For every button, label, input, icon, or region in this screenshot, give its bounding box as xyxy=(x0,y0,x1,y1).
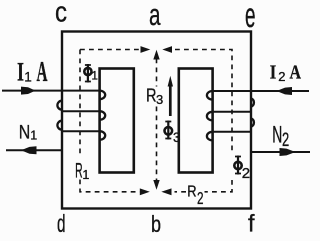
core outer boundary (c-e-f-d rectangle) xyxy=(62,32,251,209)
left core window xyxy=(100,69,134,173)
flux PHI3 direction arrow (up) in center leg xyxy=(169,85,172,116)
svg-text:1: 1 xyxy=(92,70,98,82)
arrow N2 (pointing right) xyxy=(280,148,296,156)
coil N2 outer-side loops (on outer edge) xyxy=(251,98,254,126)
center line top arrow (pointing up) xyxy=(153,50,159,60)
svg-text:1: 1 xyxy=(30,129,37,143)
coil N1 inner-side loops (on window edge) xyxy=(100,91,106,140)
svg-text:A: A xyxy=(37,57,48,88)
flux path R2 loop: top + right dashed segment (down to Phi2 label) xyxy=(175,50,232,154)
svg-text:3: 3 xyxy=(156,92,163,107)
flux path R2 loop: right-bottom dashed corner segment xyxy=(205,180,233,192)
svg-text:R: R xyxy=(146,85,157,106)
svg-text:N: N xyxy=(272,121,282,148)
wire I1 lead (left top) xyxy=(2,90,100,92)
arrow N1 (pointing left) xyxy=(21,146,37,154)
wire I2 lead (right top) xyxy=(213,90,310,92)
center line bottom arrow (pointing down) xyxy=(153,180,159,190)
svg-text:A: A xyxy=(290,62,302,84)
svg-text:2: 2 xyxy=(242,165,250,182)
svg-text:2: 2 xyxy=(278,69,285,84)
flux symbol PHI2 xyxy=(234,156,241,175)
wire N1 lead (left bottom) xyxy=(6,149,63,151)
flux path R1 loop: top dashed segment xyxy=(80,49,141,51)
arrow I1 (pointing right) xyxy=(21,87,36,95)
flux path R1 loop: left dashed segment (upper, above R1 label) xyxy=(79,50,81,158)
flux path R1 loop: bottom arrow (pointing right) xyxy=(140,188,150,195)
svg-text:d: d xyxy=(57,210,66,238)
svg-text:a: a xyxy=(149,0,161,32)
svg-text:I: I xyxy=(17,58,24,87)
svg-text:2: 2 xyxy=(197,188,204,208)
svg-text:b: b xyxy=(151,211,161,237)
svg-text:R: R xyxy=(187,184,196,201)
flux symbol PHI1 xyxy=(84,64,91,83)
wire N2 lead (right bottom) xyxy=(251,151,310,153)
svg-text:N: N xyxy=(19,123,31,144)
svg-text:c: c xyxy=(55,0,67,29)
coil N2 inner-side loops (on window edge) xyxy=(207,91,213,140)
arrow I2 (pointing left) xyxy=(277,87,293,95)
coil N1 outer-side loops (on outer edge) xyxy=(57,101,62,130)
svg-text:f: f xyxy=(248,211,255,238)
svg-text:3: 3 xyxy=(173,130,181,145)
flux path R2 loop: top arrow (pointing left) xyxy=(162,46,172,53)
svg-text:e: e xyxy=(245,0,256,35)
center leg flux dashed line (node a to node b) xyxy=(156,59,158,181)
flux path R2 loop: bottom arrow (pointing left) xyxy=(161,188,171,195)
svg-text:1: 1 xyxy=(24,69,32,84)
flux path R2 loop: bottom dashed segment left of R2 label xyxy=(175,191,187,193)
svg-text:1: 1 xyxy=(82,168,89,182)
coil N2 turn wires across right leg xyxy=(213,112,252,132)
flux symbol PHI3 xyxy=(165,121,173,140)
right core window xyxy=(179,69,213,173)
flux path R1 loop: top arrow (pointing right) xyxy=(141,46,151,53)
svg-text:I: I xyxy=(270,62,277,84)
svg-text:2: 2 xyxy=(282,130,289,151)
flux path R1 loop: left-bottom dashed corner segment xyxy=(80,180,140,192)
coil N1 turn wires across left leg xyxy=(62,111,100,131)
